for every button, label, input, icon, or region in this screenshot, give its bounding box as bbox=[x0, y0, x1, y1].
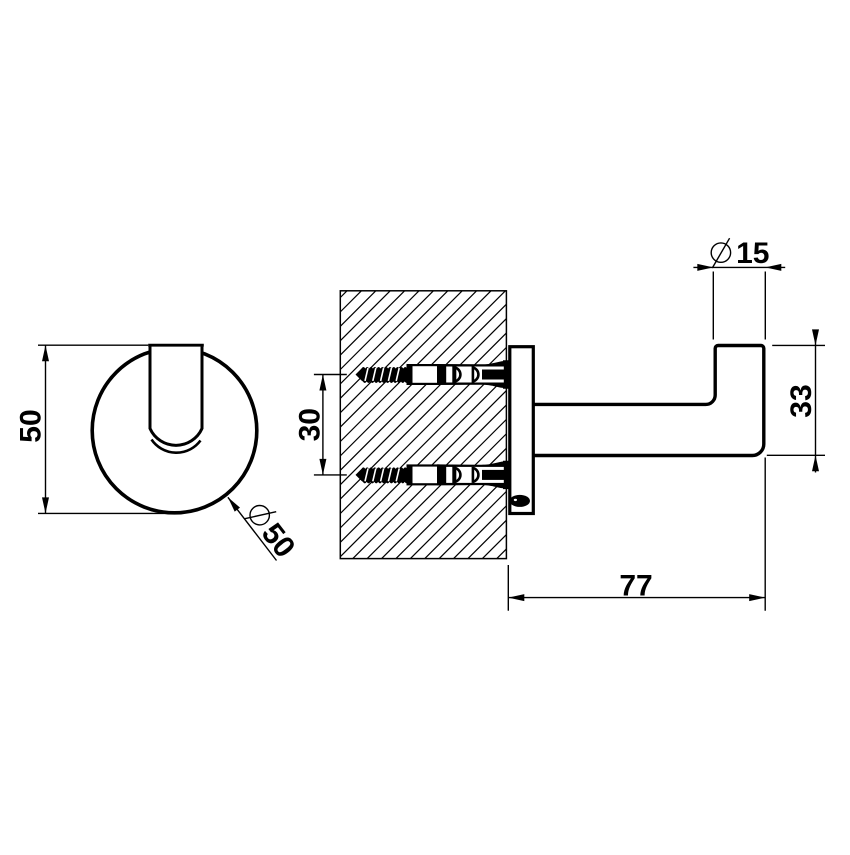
svg-text:50: 50 bbox=[14, 409, 47, 442]
svg-text:15: 15 bbox=[736, 237, 769, 270]
svg-text:77: 77 bbox=[619, 570, 652, 603]
svg-text:33: 33 bbox=[785, 384, 818, 417]
svg-text:30: 30 bbox=[293, 408, 326, 441]
